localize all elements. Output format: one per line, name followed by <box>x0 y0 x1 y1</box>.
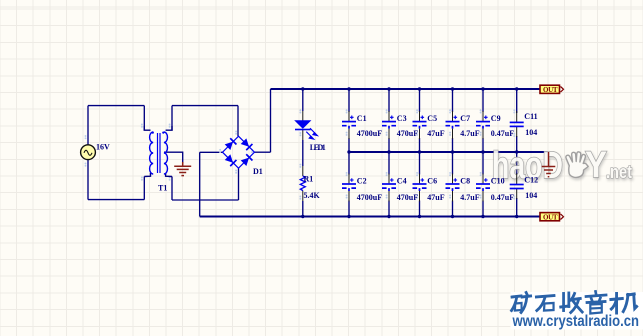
svg-text:C2: C2 <box>357 177 367 186</box>
junction dots middle rail <box>347 150 518 153</box>
wire top rail <box>271 88 541 90</box>
wire primary bottom <box>88 199 144 201</box>
capacitor C3 <box>382 111 418 139</box>
wire primary top <box>88 105 144 107</box>
capacitor C9 <box>476 111 514 139</box>
svg-text:C10: C10 <box>491 177 505 186</box>
svg-text:C1: C1 <box>357 114 367 123</box>
wire bridge left to bottom rail <box>199 152 201 216</box>
wire bridge right to top rail <box>270 89 272 152</box>
diode D1 bottom-left <box>224 154 236 166</box>
capacitor C1 <box>342 111 382 139</box>
wire bridge right vertex horizontal <box>255 151 271 153</box>
wire secondary top to bridge <box>172 105 238 107</box>
wire primary bottom pin riser <box>143 177 145 200</box>
svg-text:4.7uF: 4.7uF <box>460 193 479 202</box>
resistor R1 <box>300 166 320 201</box>
wire capacitor column C7/C8 <box>452 89 454 217</box>
pin snap marks <box>85 109 516 200</box>
ground filter middle rail <box>542 152 556 177</box>
junction dots top rail <box>301 87 518 90</box>
wire bridge left vertex horizontal <box>200 151 223 153</box>
wire transformer top-right lead <box>171 106 173 131</box>
wire primary left <box>87 106 89 200</box>
capacitor C11 <box>510 111 538 137</box>
svg-text:104: 104 <box>525 191 537 200</box>
bridge rectifier D1 <box>223 136 263 176</box>
svg-text:47uF: 47uF <box>427 129 444 138</box>
capacitor C8 <box>446 174 480 202</box>
capacitor C5 <box>413 111 445 139</box>
wire bottom rail <box>200 216 540 218</box>
svg-text:C5: C5 <box>427 114 437 123</box>
svg-text:0.47uF: 0.47uF <box>491 129 514 138</box>
svg-text:OUT: OUT <box>543 213 558 221</box>
diode D1 top-right <box>240 138 252 150</box>
watermark haoDIY.net <box>492 144 632 187</box>
svg-text:C3: C3 <box>397 114 407 123</box>
svg-text:470uF: 470uF <box>397 193 418 202</box>
wire capacitor column C3/C4 <box>388 89 390 217</box>
svg-text:C12: C12 <box>524 176 538 185</box>
svg-text:47uF: 47uF <box>427 193 444 202</box>
wire middle rail <box>349 151 549 153</box>
svg-text:4700uF: 4700uF <box>357 129 382 138</box>
diode D1 top-left <box>224 138 236 150</box>
logo char shi <box>536 296 554 311</box>
wire capacitor column C5/C6 <box>419 89 421 217</box>
svg-text:4.7uF: 4.7uF <box>460 129 479 138</box>
wire bridge bottom vertex riser <box>238 168 240 200</box>
ground transformer center tap <box>174 162 191 176</box>
wire LED column <box>302 89 304 217</box>
svg-text:C11: C11 <box>524 112 537 121</box>
svg-text:C4: C4 <box>397 177 407 186</box>
capacitor C12 <box>510 174 538 201</box>
wire down to bridge top vertex <box>237 106 239 137</box>
capacitor C10 <box>476 174 514 202</box>
port OUT top <box>540 85 564 94</box>
AC source 16V <box>81 143 110 160</box>
svg-text:C7: C7 <box>460 114 470 123</box>
capacitor C7 <box>446 111 480 139</box>
capacitor C4 <box>382 174 418 202</box>
wire capacitor column C11/C12 <box>516 89 518 217</box>
wire secondary bottom horizontal <box>172 199 239 201</box>
svg-text:C9: C9 <box>491 114 501 123</box>
wire secondary bottom lead <box>171 177 173 201</box>
logo char ji <box>611 294 637 314</box>
capacitor C2 <box>342 174 382 202</box>
transformer T1 <box>144 126 172 193</box>
wire transformer top-left lead <box>143 106 145 131</box>
svg-text:www.crystalradio.cn: www.crystalradio.cn <box>512 313 639 330</box>
svg-text:OUT: OUT <box>543 86 558 94</box>
diode D1 bottom-right <box>240 154 252 166</box>
logo char shou <box>561 293 582 313</box>
logo char yin <box>586 292 606 314</box>
svg-text:4700uF: 4700uF <box>357 193 382 202</box>
site logo crystalradio <box>511 292 643 331</box>
svg-text:0.47uF: 0.47uF <box>491 193 514 202</box>
wire capacitor column C9/C10 <box>482 89 484 217</box>
svg-text:470uF: 470uF <box>397 129 418 138</box>
watermark hand icon <box>566 152 588 178</box>
capacitor C6 <box>413 174 445 202</box>
wire transformer center tap <box>164 152 183 163</box>
logo char kuang <box>512 293 531 313</box>
port OUT bottom <box>540 213 564 222</box>
wire capacitor column C1/C2 <box>348 89 350 217</box>
svg-text:C8: C8 <box>460 177 470 186</box>
svg-text:104: 104 <box>525 128 537 137</box>
svg-text:C6: C6 <box>427 177 437 186</box>
LED LED1 <box>294 111 326 152</box>
junction dots bottom rail <box>301 215 518 218</box>
